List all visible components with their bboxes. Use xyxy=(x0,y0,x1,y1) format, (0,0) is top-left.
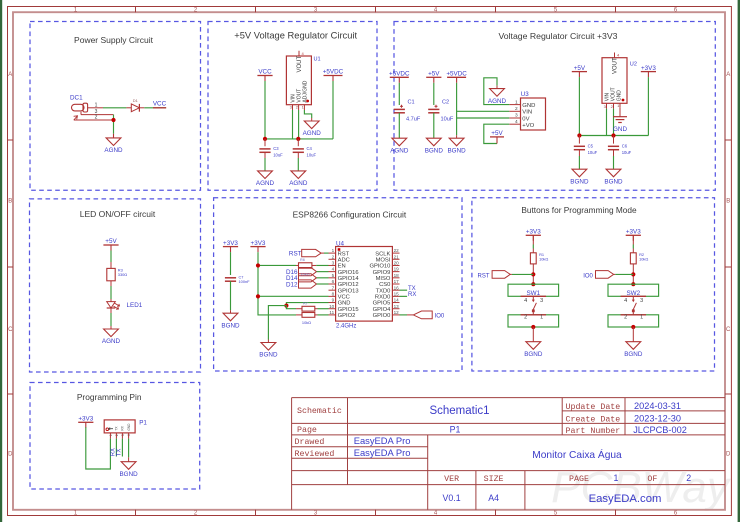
wire U3 GND to AGND xyxy=(484,78,510,105)
svg-text:GND: GND xyxy=(613,126,627,133)
resistor R6 (EN pull-up) xyxy=(299,263,312,268)
svg-text:A: A xyxy=(726,72,730,78)
wire +3V3 to VCC xyxy=(258,295,329,297)
svg-text:Schematic1: Schematic1 xyxy=(429,405,489,417)
svg-text:+3V3: +3V3 xyxy=(78,416,93,423)
junction C5 xyxy=(577,133,581,137)
svg-text:3: 3 xyxy=(540,298,543,304)
switch SW1 top contacts xyxy=(508,284,559,296)
title block grid xyxy=(291,398,293,510)
svg-text:GPIO0: GPIO0 xyxy=(373,313,391,319)
svg-text:3: 3 xyxy=(640,298,643,304)
svg-text:AGND: AGND xyxy=(303,130,322,137)
svg-text:1: 1 xyxy=(515,99,518,105)
wire GND to BGND xyxy=(268,306,286,340)
wire U1 ADJ/GND to AGND xyxy=(304,110,311,118)
net arrow RST xyxy=(492,271,510,279)
svg-text:2: 2 xyxy=(524,314,527,320)
capacitor C5 xyxy=(574,145,585,147)
svg-text:RST: RST xyxy=(478,273,490,279)
svg-text:VCC: VCC xyxy=(338,295,350,301)
svg-text:2: 2 xyxy=(624,314,627,320)
svg-text:VOUT: VOUT xyxy=(297,55,303,72)
svg-text:V0.1: V0.1 xyxy=(443,493,461,503)
svg-text:D1: D1 xyxy=(133,98,139,103)
wire +3V3 vertical to GPIO2 pull-up xyxy=(258,252,296,315)
wire U3 VIN xyxy=(457,110,510,112)
svg-text:RXD0: RXD0 xyxy=(375,295,390,301)
regulator U3 xyxy=(521,98,546,130)
svg-text:10uF: 10uF xyxy=(307,153,317,158)
U2 top pin stub xyxy=(614,53,616,58)
junction IO0 xyxy=(631,272,635,276)
svg-text:OF: OF xyxy=(647,475,657,484)
svg-text:AGND: AGND xyxy=(488,98,507,105)
svg-text:+3V3: +3V3 xyxy=(641,65,656,72)
svg-text:SIZE: SIZE xyxy=(484,475,504,484)
svg-text:SW1: SW1 xyxy=(526,290,540,297)
LED LED1 xyxy=(110,299,112,302)
svg-text:2: 2 xyxy=(686,473,691,483)
ground AGND (C3) xyxy=(258,171,273,179)
net arrow D16 xyxy=(299,268,317,276)
page edge strip left xyxy=(0,0,2,522)
U1 pin 4 top stub xyxy=(298,51,300,56)
wire C3 to AGND xyxy=(264,158,266,171)
svg-text:1: 1 xyxy=(640,314,643,320)
wire C5 to BGND xyxy=(578,156,580,169)
net arrow D14 xyxy=(299,274,317,282)
wire IO0 to SW2 xyxy=(615,273,633,275)
wire +3V3 down xyxy=(647,77,649,135)
svg-text:2: 2 xyxy=(515,106,518,112)
wire R3 to LED1 xyxy=(110,286,112,299)
svg-text:10: 10 xyxy=(329,304,335,309)
wire rail U2 xyxy=(579,135,648,137)
svg-text:+5V: +5V xyxy=(105,238,117,245)
resistor R8 (GPIO2 pull-up) xyxy=(302,313,315,318)
svg-text:BGND: BGND xyxy=(259,352,278,359)
svg-text:ADC: ADC xyxy=(338,257,350,263)
svg-text:D12: D12 xyxy=(286,281,298,288)
svg-text:R7: R7 xyxy=(303,302,308,306)
svg-text:BGND: BGND xyxy=(624,351,643,358)
svg-text:2024-03-31: 2024-03-31 xyxy=(634,401,681,411)
svg-text:AGND: AGND xyxy=(390,147,409,154)
svg-text:9: 9 xyxy=(332,298,335,303)
svg-text:17: 17 xyxy=(394,279,400,284)
P1 pin stubs xyxy=(109,433,111,439)
svg-text:GPIO10: GPIO10 xyxy=(369,264,390,270)
svg-text:A4: A4 xyxy=(488,493,499,503)
frame column ticks top/bottom xyxy=(135,7,137,13)
svg-text:6: 6 xyxy=(332,279,335,284)
svg-text:2: 2 xyxy=(332,254,335,259)
svg-text:VIN: VIN xyxy=(604,92,610,101)
wire C7 to BGND xyxy=(230,281,232,310)
svg-text:U1: U1 xyxy=(314,57,321,63)
svg-text:VIN: VIN xyxy=(290,94,296,103)
svg-text:GPIO13: GPIO13 xyxy=(338,288,359,294)
svg-text:LED ON/OFF circuit: LED ON/OFF circuit xyxy=(80,209,156,219)
svg-text:Power Supply Circuit: Power Supply Circuit xyxy=(74,35,154,45)
U4 pin-1 mark xyxy=(338,248,341,251)
ground BGND (C7) xyxy=(223,313,238,321)
net arrow RST xyxy=(302,249,321,256)
wire DC1 pin1 to D1 xyxy=(103,107,126,109)
regulator U1 xyxy=(286,56,311,105)
svg-text:GPIO12: GPIO12 xyxy=(338,282,359,288)
svg-text:+5VDC: +5VDC xyxy=(446,71,467,78)
wire RXD0 xyxy=(400,295,408,297)
svg-text:+5V: +5V xyxy=(574,65,586,72)
svg-text:10uF: 10uF xyxy=(441,117,454,123)
svg-text:+3V3: +3V3 xyxy=(251,240,266,247)
svg-text:10uF: 10uF xyxy=(588,150,598,155)
section box: Power Supply Circuit xyxy=(30,22,201,191)
svg-text:10kΩ: 10kΩ xyxy=(301,271,310,276)
svg-text:+5V: +5V xyxy=(428,71,440,78)
svg-text:0V: 0V xyxy=(522,116,529,122)
svg-text:VCC: VCC xyxy=(258,69,272,76)
DC1 pin 1 xyxy=(88,107,103,109)
svg-text:+5VDC: +5VDC xyxy=(389,71,410,78)
wire GND down xyxy=(286,303,328,306)
svg-text:VCC: VCC xyxy=(153,100,167,107)
svg-text:10uF: 10uF xyxy=(273,153,283,158)
wire +3V3 to P1 pin1 xyxy=(86,427,111,469)
svg-text:MISO: MISO xyxy=(376,276,391,282)
svg-text:11: 11 xyxy=(329,310,334,315)
junction pins 2/3 xyxy=(111,118,115,122)
svg-text:IO0: IO0 xyxy=(583,273,593,279)
svg-text:1: 1 xyxy=(540,314,543,320)
svg-text:12: 12 xyxy=(394,310,400,315)
svg-text:AGND: AGND xyxy=(256,180,275,187)
wire +3V3 to R1 xyxy=(532,245,534,249)
wire rail xyxy=(265,138,333,140)
section box: Buttons for Programming Mode xyxy=(472,198,715,371)
svg-text:Reviewed: Reviewed xyxy=(295,449,335,459)
capacitor C1 xyxy=(394,108,405,110)
section box: +5V Voltage Regulator Circuit xyxy=(208,22,377,191)
svg-text:GPIO2: GPIO2 xyxy=(338,313,356,319)
svg-text:GND: GND xyxy=(522,103,535,109)
svg-text:Part Number: Part Number xyxy=(566,426,621,436)
wire +5VDC to rail xyxy=(332,81,334,139)
junction SW1 top xyxy=(531,282,535,286)
svg-text:C2: C2 xyxy=(442,100,449,106)
svg-text:4.7uF: 4.7uF xyxy=(406,117,421,123)
svg-text:Monitor Caixa Água: Monitor Caixa Água xyxy=(532,448,622,461)
wire U1 VOUT down xyxy=(298,110,300,139)
svg-text:2023-12-30: 2023-12-30 xyxy=(634,413,681,423)
svg-text:U4: U4 xyxy=(336,240,345,247)
ground AGND (U3) xyxy=(490,89,505,97)
junction C3 xyxy=(263,137,267,141)
ground BGND (C5) xyxy=(572,169,587,177)
wire P1 pin3 TX xyxy=(121,439,123,457)
svg-text:GPIO15: GPIO15 xyxy=(338,307,359,313)
svg-text:20: 20 xyxy=(394,261,400,266)
switch SW1 lever xyxy=(532,296,534,300)
svg-text:P1: P1 xyxy=(139,420,147,427)
svg-text:DC1: DC1 xyxy=(70,95,83,102)
svg-text:U3: U3 xyxy=(521,91,529,98)
svg-text:18: 18 xyxy=(394,273,400,278)
U2 bottom pin stubs xyxy=(606,103,608,108)
wire U3 +VO to +5V xyxy=(484,124,510,143)
svg-text:2: 2 xyxy=(95,115,98,121)
svg-text:4: 4 xyxy=(624,298,627,304)
connector DC1 barrel jack xyxy=(72,104,85,111)
svg-text:BGND: BGND xyxy=(570,178,589,185)
svg-text:15: 15 xyxy=(394,291,400,296)
resistor R2 xyxy=(630,253,636,264)
switch SW2 lever xyxy=(632,296,634,300)
wire D12 to pin xyxy=(317,283,329,285)
svg-text:13: 13 xyxy=(394,304,400,309)
svg-text:P1: P1 xyxy=(450,424,461,434)
section box: Voltage Regulator Circuit +3V3 xyxy=(394,22,715,191)
switch SW1 bottom contacts xyxy=(508,315,559,327)
wire U2 VIN down xyxy=(606,109,608,136)
svg-text:AGND: AGND xyxy=(102,338,121,345)
section box: Programming Pin xyxy=(30,383,200,490)
svg-text:+5V: +5V xyxy=(491,130,503,137)
svg-text:JLCPCB-002: JLCPCB-002 xyxy=(633,425,687,435)
svg-text:C6: C6 xyxy=(622,143,628,148)
svg-text:14: 14 xyxy=(394,298,400,303)
svg-text:TX: TX xyxy=(117,449,123,457)
svg-text:GPIO4: GPIO4 xyxy=(373,307,391,313)
svg-text:+5VDC: +5VDC xyxy=(323,69,344,76)
svg-text:GPIO5: GPIO5 xyxy=(373,301,391,307)
svg-text:1: 1 xyxy=(614,473,619,483)
junction C4 xyxy=(296,137,300,141)
ground BGND (+5VDC) xyxy=(449,138,464,146)
resistor R1 xyxy=(530,253,536,264)
resistor R7 (GPIO15 pull-down) xyxy=(302,306,315,311)
svg-text:EasyEDA.com: EasyEDA.com xyxy=(589,493,662,505)
junction SW2 bottom xyxy=(631,325,635,329)
wire C1 to AGND xyxy=(398,113,400,138)
wire D14 to pin xyxy=(317,277,329,279)
svg-text:BGND: BGND xyxy=(524,351,543,358)
svg-text:MOSI: MOSI xyxy=(376,257,391,263)
svg-text:AGND: AGND xyxy=(104,147,123,154)
frame row ticks left/right xyxy=(8,139,14,141)
svg-text:Update Date: Update Date xyxy=(566,402,621,412)
svg-text:1: 1 xyxy=(95,102,98,108)
svg-text:BGND: BGND xyxy=(447,147,466,154)
svg-text:C3: C3 xyxy=(273,146,279,151)
chip U4 ESP8266 xyxy=(336,247,393,322)
resistor R3 xyxy=(107,268,115,280)
svg-text:BGND: BGND xyxy=(604,178,623,185)
ground AGND (C4) xyxy=(291,171,306,179)
svg-text:GPIO9: GPIO9 xyxy=(373,270,391,276)
P1 orientation arrow (inside) xyxy=(109,428,113,430)
svg-text:VOUT: VOUT xyxy=(610,87,616,101)
svg-text:1: 1 xyxy=(332,248,335,253)
svg-text:10kΩ: 10kΩ xyxy=(302,320,311,325)
svg-text:SW2: SW2 xyxy=(626,290,640,297)
U4 pin stubs and names xyxy=(329,252,336,254)
svg-text:EasyEDA Pro: EasyEDA Pro xyxy=(354,435,411,446)
svg-text:3: 3 xyxy=(332,261,335,266)
wire D1 to VCC xyxy=(144,107,166,109)
svg-text:RST: RST xyxy=(338,251,350,257)
svg-text:Create Date: Create Date xyxy=(566,415,621,424)
junction C6 xyxy=(611,133,615,137)
P1 pin-1 circle xyxy=(106,428,109,431)
svg-text:D: D xyxy=(726,452,731,458)
svg-text:Schematic: Schematic xyxy=(297,406,342,416)
wire D16 to pin xyxy=(317,271,329,273)
svg-text:+3V3: +3V3 xyxy=(223,240,238,247)
svg-text:AGND: AGND xyxy=(289,180,308,187)
svg-text:A: A xyxy=(8,72,12,78)
svg-text:TXD0: TXD0 xyxy=(376,288,391,294)
svg-text:C5: C5 xyxy=(588,143,594,148)
connector P1 xyxy=(104,420,135,433)
junction RST xyxy=(531,272,535,276)
DC1 pin 2 with switch arrow xyxy=(74,119,114,121)
junction SW1 bottom xyxy=(531,325,535,329)
wire VCC to rail xyxy=(264,81,266,139)
svg-text:+VO: +VO xyxy=(522,123,534,129)
page edge strip right xyxy=(738,0,740,522)
svg-text:Page: Page xyxy=(297,426,317,435)
wire +3V3 to R2 xyxy=(632,245,634,249)
wire GND to R7 xyxy=(286,306,296,309)
svg-text:VER: VER xyxy=(444,475,459,484)
svg-text:10uF: 10uF xyxy=(622,150,632,155)
svg-text:+3V3: +3V3 xyxy=(626,229,641,236)
ground AGND (C1) xyxy=(392,138,407,146)
ground BGND (SW1) xyxy=(526,342,541,350)
svg-text:GND: GND xyxy=(617,90,623,102)
junction SW2 top xyxy=(631,282,635,286)
svg-text:R6: R6 xyxy=(300,258,305,262)
svg-text:100nF: 100nF xyxy=(239,279,251,284)
wire C4 to AGND xyxy=(297,158,299,171)
wire P1 pin2 RX xyxy=(115,439,117,457)
wire C6 to BGND xyxy=(613,156,615,169)
junction VCC xyxy=(256,294,260,298)
capacitor C3 xyxy=(259,148,270,150)
wire R6 to EN pin xyxy=(316,264,328,266)
svg-text:4: 4 xyxy=(515,119,518,125)
svg-text:RST: RST xyxy=(289,251,302,258)
svg-text:GPIO14: GPIO14 xyxy=(338,276,360,282)
wire U3 0V xyxy=(457,117,510,119)
svg-text:BGND: BGND xyxy=(119,471,138,478)
svg-text:BGND: BGND xyxy=(221,322,240,329)
svg-text:Voltage Regulator Circuit +3V3: Voltage Regulator Circuit +3V3 xyxy=(498,31,617,41)
svg-text:VOUT: VOUT xyxy=(613,57,619,74)
wire node to AGND xyxy=(113,115,115,134)
DC1 pin 3 xyxy=(80,112,82,115)
ground AGND (power supply) xyxy=(106,138,121,146)
svg-text:7: 7 xyxy=(332,285,335,290)
wire LED1 to AGND xyxy=(110,313,112,326)
svg-text:RX: RX xyxy=(408,292,416,298)
wire +5V to R3 xyxy=(110,251,112,263)
wire U2 VOUT down xyxy=(613,109,615,136)
svg-text:TX: TX xyxy=(408,286,416,292)
junction EN pull-up xyxy=(256,263,260,267)
svg-text:21: 21 xyxy=(394,254,400,259)
svg-text:ESP8266 Configuration Circuit: ESP8266 Configuration Circuit xyxy=(293,210,407,220)
svg-text:EN: EN xyxy=(338,264,346,270)
svg-text:19: 19 xyxy=(394,267,400,272)
svg-text:4: 4 xyxy=(332,267,335,272)
svg-text:10kΩ: 10kΩ xyxy=(539,257,548,262)
ground BGND (SW2) xyxy=(626,342,641,350)
net arrow IO0 xyxy=(596,271,614,279)
svg-text:B: B xyxy=(8,199,12,205)
svg-text:BGND: BGND xyxy=(425,147,444,154)
wire R7 to GPIO15 pin xyxy=(318,308,329,310)
ground BGND (P1) xyxy=(121,462,136,470)
svg-text:+5V Voltage Regulator Circuit: +5V Voltage Regulator Circuit xyxy=(234,30,357,40)
svg-text:VOUT: VOUT xyxy=(296,89,302,103)
switch SW2 bottom contacts xyxy=(608,315,659,327)
svg-text:LED1: LED1 xyxy=(127,302,143,309)
svg-text:3: 3 xyxy=(515,113,518,119)
svg-text:C1: C1 xyxy=(408,100,415,106)
switch SW2 top contacts xyxy=(608,284,659,296)
svg-text:SCLK: SCLK xyxy=(375,251,390,257)
wire P1 pin4 to BGND xyxy=(128,439,130,458)
junction GND net xyxy=(284,304,288,308)
svg-text:CS0: CS0 xyxy=(379,282,390,288)
wire +3V3 to R6 xyxy=(258,264,296,266)
ground BGND (C2) xyxy=(426,138,441,146)
capacitor C7 xyxy=(225,277,236,279)
U1 bottom pin stubs xyxy=(292,105,294,110)
svg-text:16: 16 xyxy=(394,285,400,290)
svg-text:C4: C4 xyxy=(307,146,313,151)
wire RST to SW1 xyxy=(512,273,533,275)
svg-text:IO0: IO0 xyxy=(435,313,445,319)
net arrow D12 xyxy=(299,280,317,288)
wire +5V to C2 xyxy=(433,83,435,105)
svg-text:EasyEDA Pro: EasyEDA Pro xyxy=(354,447,411,458)
svg-text:ADJ/GND: ADJ/GND xyxy=(303,80,309,102)
svg-text:C: C xyxy=(726,327,731,333)
wire +5V down xyxy=(578,77,580,135)
svg-text:22: 22 xyxy=(394,248,400,253)
wire +5VDC to C1 xyxy=(398,83,400,105)
ground BGND (C6) xyxy=(606,169,621,177)
svg-text:PAGE: PAGE xyxy=(569,475,589,484)
svg-text:VIN: VIN xyxy=(522,110,532,116)
svg-text:8: 8 xyxy=(332,291,335,296)
ground AGND (LED) xyxy=(104,329,119,337)
svg-text:D: D xyxy=(8,452,13,458)
svg-text:C: C xyxy=(8,327,13,333)
U3 pin stubs xyxy=(509,104,520,106)
svg-text:Drawed: Drawed xyxy=(295,437,325,447)
wire RST arrow to pin xyxy=(324,252,329,254)
capacitor C6 xyxy=(608,145,619,147)
svg-text:U2: U2 xyxy=(630,62,637,68)
wire R8 to GPIO2 pin xyxy=(318,314,329,316)
svg-text:Buttons for Programming Mode: Buttons for Programming Mode xyxy=(521,205,637,215)
